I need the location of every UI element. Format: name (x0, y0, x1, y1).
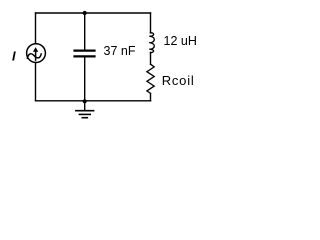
ground bar 2 (79, 113, 91, 115)
wire capacitor upper lead (84, 13, 86, 50)
wire capacitor lower lead (84, 57, 86, 101)
capacitor C 37nF bottom plate (73, 55, 95, 57)
capacitor C 37nF top plate (73, 49, 95, 51)
wire top (36, 12, 151, 14)
resistor Rcoil zigzag (147, 64, 154, 93)
wire inductor-resistor link (150, 53, 152, 65)
ground stem (84, 101, 86, 111)
wire left upper (35, 13, 37, 44)
wire left lower (35, 63, 37, 101)
node top junction dot (83, 11, 87, 15)
svg-text:Rcoil: Rcoil (162, 73, 195, 88)
current source sine tilde (27, 54, 41, 59)
wire resistor bottom lead (150, 93, 152, 100)
ground bar 3 (82, 117, 89, 119)
current source arrow shaft (35, 51, 37, 60)
svg-text:37 nF: 37 nF (104, 44, 136, 58)
inductor L 12uH coil (150, 33, 155, 53)
svg-text:12 uH: 12 uH (164, 34, 197, 48)
wire right upper lead (150, 13, 152, 33)
ground bar 1 (75, 110, 94, 112)
current source arrow head (33, 47, 38, 52)
current source I circle (27, 44, 46, 63)
label I (12, 52, 16, 61)
node bottom junction dot (83, 99, 87, 103)
wire bottom (36, 100, 151, 102)
